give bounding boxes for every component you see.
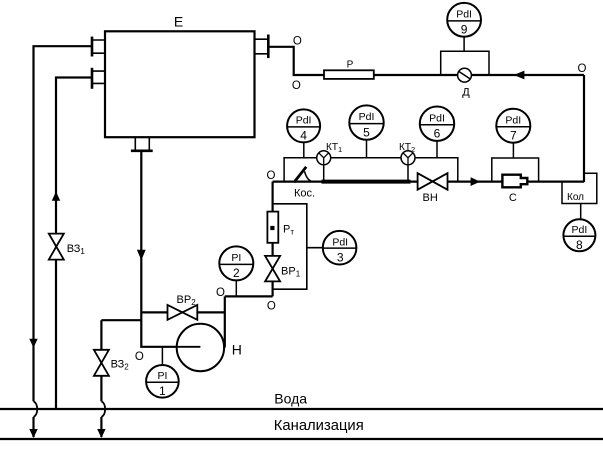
- wire return drop to collector: [583, 75, 585, 182]
- wire KT1 stem: [323, 158, 325, 182]
- wire drain continuation to sewer: [32, 417, 34, 437]
- svg-text:2: 2: [233, 266, 240, 280]
- svg-text:PI: PI: [231, 252, 241, 264]
- instrument PdI7: [496, 109, 530, 143]
- svg-text:7: 7: [510, 129, 517, 143]
- arrow flow right after VN: [471, 177, 481, 186]
- valve VZ2: [94, 350, 109, 376]
- svg-text:3: 3: [337, 251, 344, 265]
- arrow into sewer line: [97, 429, 105, 438]
- svg-text:PdI: PdI: [572, 224, 588, 236]
- resistance element R: [324, 70, 374, 79]
- wire PdI3 loop: [273, 204, 307, 289]
- wire tank bottom outlet to pump: [141, 152, 200, 347]
- wire PI1 stem: [161, 347, 163, 365]
- wire PdI7 stem: [512, 143, 514, 158]
- svg-text:О: О: [135, 351, 144, 363]
- instrument PdI5: [349, 105, 383, 139]
- svg-text:PdI: PdI: [456, 9, 472, 21]
- svg-text:О: О: [216, 287, 225, 299]
- svg-text:Н: Н: [232, 342, 242, 358]
- svg-text:6: 6: [434, 127, 441, 141]
- flange tank bottom: [135, 137, 149, 151]
- Pt turbine sensor rect: [267, 212, 278, 243]
- wire C bypass loop: [492, 158, 539, 182]
- svg-text:Р: Р: [347, 59, 354, 70]
- arrow down tank outlet: [137, 250, 146, 260]
- svg-text:PdI: PdI: [505, 114, 521, 126]
- svg-text:Вода: Вода: [274, 391, 307, 407]
- svg-text:О: О: [292, 80, 301, 92]
- wire pump outlet riser: [224, 296, 226, 347]
- instrument PdI9: [447, 3, 481, 37]
- svg-text:PI: PI: [157, 370, 167, 382]
- svg-text:О: О: [293, 36, 302, 48]
- separator C: [502, 175, 527, 188]
- flange tank right: [267, 35, 270, 59]
- instrument PdI6: [420, 107, 454, 141]
- instrument PI2: [219, 246, 253, 280]
- svg-text:9: 9: [461, 23, 468, 37]
- wire thick test section: [322, 180, 411, 184]
- wire KT2 stem: [407, 158, 409, 182]
- orifice element Kos: [294, 167, 306, 183]
- sensor box D: [441, 51, 489, 75]
- arrow up water supply: [52, 192, 60, 201]
- arrow into sewer line: [29, 429, 37, 438]
- wire drain line from tank upper-left nozzle: [34, 46, 93, 401]
- svg-text:4: 4: [300, 129, 307, 143]
- wire jump over water line: [34, 401, 38, 417]
- svg-text:PdI: PdI: [429, 112, 445, 124]
- wire PI2 stem: [235, 280, 237, 296]
- collector box Kol: [562, 173, 597, 203]
- svg-text:8: 8: [576, 238, 583, 252]
- valve VN: [418, 173, 448, 190]
- tap KT2: [401, 151, 415, 165]
- sensor circle D: [458, 68, 472, 82]
- wire PdI3 connection: [307, 247, 324, 249]
- pump N circle: [177, 324, 224, 371]
- sewer main line: [0, 438, 603, 440]
- svg-text:С: С: [509, 192, 517, 204]
- wire PdI8 stem: [580, 204, 582, 220]
- flange tank upper-left: [91, 37, 94, 57]
- svg-text:1: 1: [159, 384, 166, 398]
- instrument PdI4: [287, 109, 320, 142]
- svg-text:О: О: [267, 170, 276, 182]
- svg-text:Канализация: Канализация: [274, 418, 364, 434]
- instrument PdI3: [323, 231, 357, 265]
- wire PdI6 stem: [436, 141, 438, 158]
- wire water supply line to tank lower-left nozzle: [56, 78, 92, 409]
- valve VR1: [265, 256, 280, 282]
- pump shaft line: [177, 346, 201, 348]
- svg-text:ВН: ВН: [423, 192, 438, 204]
- tap KT1: [317, 151, 331, 165]
- wire drain continuation to sewer: [100, 417, 102, 437]
- svg-text:5: 5: [363, 125, 370, 139]
- svg-text:PdI: PdI: [296, 115, 312, 127]
- instrument PI1: [146, 365, 179, 398]
- svg-text:О: О: [578, 63, 587, 75]
- svg-text:О: О: [267, 300, 276, 312]
- wire main test pipe: [273, 181, 418, 183]
- svg-text:PdI: PdI: [359, 111, 375, 123]
- instrument PdI8: [563, 219, 595, 251]
- wire jump over water line: [101, 401, 105, 417]
- svg-text:Е: Е: [174, 14, 183, 30]
- wire recirculation line through VR2: [141, 311, 225, 313]
- wire PdI5 stem: [366, 140, 368, 158]
- wire top return line from tank right nozzle: [268, 47, 584, 75]
- wire pump discharge pipe: [225, 295, 273, 297]
- valve VR2: [168, 305, 198, 320]
- valve VZ1: [49, 234, 64, 260]
- wire BZ2 drain branch: [101, 320, 141, 401]
- arrow down mid drain line: [29, 339, 37, 348]
- wire VR1 axis vertical: [272, 182, 274, 297]
- tank E: [105, 31, 255, 137]
- wire PdI9 stem: [463, 37, 465, 52]
- svg-text:Кос.: Кос.: [294, 188, 315, 200]
- svg-text:PdI: PdI: [332, 237, 348, 249]
- arrow flow left on return line: [514, 71, 525, 80]
- wire pipe after VN valve: [448, 181, 585, 183]
- svg-text:Д: Д: [462, 87, 470, 99]
- svg-text:Кол: Кол: [567, 192, 584, 203]
- flange tank lower-left: [91, 68, 94, 89]
- wire PdI4 stem: [303, 143, 305, 158]
- water main line: [0, 408, 603, 410]
- wire instrument header line: [284, 158, 458, 182]
